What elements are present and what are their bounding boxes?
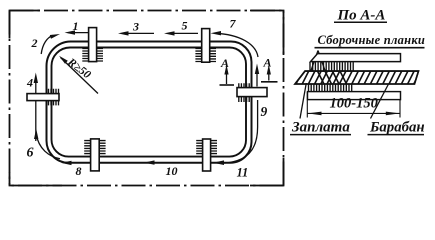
weld direction arrow 10 (on bottom line) — [144, 160, 155, 164]
patch plate 2 (top right) with weld hatching — [195, 29, 216, 63]
weld direction arrow 5 — [168, 32, 198, 34]
svg-text:100-150: 100-150 — [330, 96, 378, 112]
weld direction arrow 8 (on bottom line) — [61, 161, 72, 165]
weld direction arrow 7 (around top-right corner) — [215, 33, 258, 57]
svg-text:10: 10 — [166, 164, 178, 178]
frame (dash-dot border of left figure) — [10, 11, 284, 186]
weld comb above bar — [310, 62, 353, 71]
label patch (Заплата) — [290, 83, 351, 136]
dimension 100-150 — [307, 92, 400, 118]
patch plate (left edge) with weld hatching — [27, 89, 59, 106]
svg-text:A: A — [220, 56, 229, 70]
upper assembly strip — [311, 54, 401, 62]
drum loop outer contour — [46, 42, 251, 163]
radius leader R>=50 — [59, 56, 98, 94]
weld direction arrow 4 (left edge, upward) — [35, 77, 37, 141]
patch plate 10 (bottom right) with weld hatching — [196, 139, 217, 171]
weld direction arrow 6 (around bottom-left corner) — [36, 134, 60, 159]
svg-text:6: 6 — [27, 146, 34, 161]
weld direction arrow 2 (around top-left corner) — [41, 35, 53, 54]
svg-text:7: 7 — [230, 17, 237, 31]
svg-text:1: 1 — [73, 19, 79, 33]
weld direction arrow 1 (top, leftmost) — [68, 32, 88, 34]
svg-text:2: 2 — [31, 36, 38, 50]
svg-text:Барабан: Барабан — [369, 120, 425, 136]
frame solid corners — [10, 11, 284, 186]
drum/patch plate in section (hatched bar) — [295, 71, 420, 84]
label assembly strips — [311, 33, 425, 72]
patch plate 1 (top left) with weld hatching — [82, 28, 103, 62]
weld direction arrow 11 (around bottom-right corner) — [220, 100, 258, 163]
svg-text:По А-А: По А-А — [337, 8, 386, 24]
svg-text:5: 5 — [182, 19, 188, 33]
svg-text:8: 8 — [76, 164, 82, 178]
section mark A (right) — [261, 56, 278, 82]
svg-text:11: 11 — [237, 166, 249, 180]
lower assembly strip — [308, 92, 401, 100]
section mark A (left) — [220, 56, 235, 85]
weld comb below bar — [309, 85, 352, 92]
weld direction arrow 3 — [122, 32, 154, 34]
svg-text:3: 3 — [132, 20, 139, 34]
svg-text:Сборочные планки: Сборочные планки — [318, 33, 426, 47]
svg-text:Заплата: Заплата — [291, 120, 350, 136]
drum loop inner contour — [51, 48, 246, 157]
patch plate (right edge, section A-A passes here) with weld hatching — [237, 83, 267, 102]
label drum (Барабан) — [368, 84, 425, 136]
weld direction arrow 9 (right edge, upward) — [256, 69, 258, 87]
svg-text:9: 9 — [261, 104, 268, 119]
svg-text:A: A — [263, 56, 272, 70]
section view title — [334, 8, 387, 24]
patch plate 8 (bottom left) with weld hatching — [84, 139, 105, 171]
svg-text:4: 4 — [26, 76, 33, 90]
